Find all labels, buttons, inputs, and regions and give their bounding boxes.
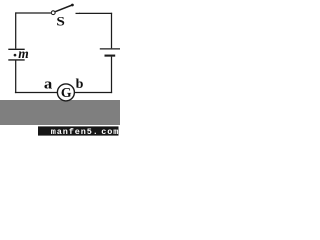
- wire right vertical upper: [111, 13, 113, 49]
- wire left vertical upper: [15, 12, 17, 48]
- wire bottom-right horizontal: [74, 92, 112, 94]
- watermark strip manfen5.com: [38, 126, 119, 136]
- wire bottom-left horizontal: [15, 92, 58, 94]
- capacitor plates: [8, 49, 24, 60]
- svg-text:b: b: [76, 77, 84, 92]
- wire right vertical lower: [111, 57, 113, 94]
- wire left vertical lower: [15, 60, 17, 93]
- battery: [100, 49, 120, 56]
- galvanometer G: [57, 84, 74, 101]
- charged particle m: [14, 46, 29, 61]
- svg-text:com: com: [101, 127, 119, 137]
- svg-text:manfen5.: manfen5.: [51, 127, 99, 137]
- background: [0, 0, 120, 138]
- watermark gray band: [0, 100, 120, 125]
- wire top-left horizontal: [15, 12, 51, 14]
- wire top-right horizontal: [79, 12, 112, 14]
- svg-text:G: G: [61, 85, 72, 100]
- svg-text:a: a: [44, 76, 52, 92]
- svg-text:m: m: [18, 46, 29, 61]
- switch S: [51, 4, 80, 15]
- svg-text:S: S: [56, 15, 65, 28]
